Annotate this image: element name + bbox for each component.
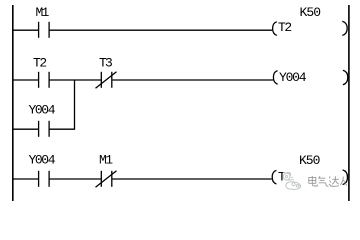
svg-text:M1: M1 bbox=[99, 152, 113, 167]
svg-text:M1: M1 bbox=[36, 5, 50, 20]
svg-text:K50: K50 bbox=[300, 5, 322, 20]
svg-text:T2: T2 bbox=[278, 20, 292, 35]
svg-text:T2: T2 bbox=[33, 56, 47, 71]
svg-text:Y004: Y004 bbox=[279, 70, 307, 85]
svg-text:K50: K50 bbox=[299, 153, 320, 168]
svg-text:Y004: Y004 bbox=[29, 152, 56, 167]
svg-text:Y004: Y004 bbox=[29, 103, 56, 118]
svg-text:T3: T3 bbox=[99, 56, 113, 71]
